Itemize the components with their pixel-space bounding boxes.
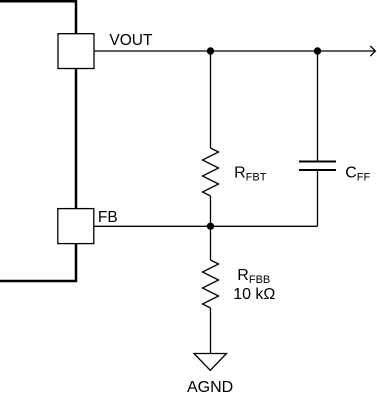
resistor RFBT xyxy=(203,148,219,196)
pin box VOUT xyxy=(58,34,94,69)
node dot VOUT/RFBT xyxy=(207,47,214,54)
wire FB horizontal xyxy=(94,225,318,227)
node dot VOUT/CFF xyxy=(314,47,321,54)
arrowhead VOUT output xyxy=(370,46,375,56)
pin box FB xyxy=(58,209,94,244)
wire FB to RFBB xyxy=(210,226,212,260)
ground symbol AGND xyxy=(194,354,227,371)
svg-text:FB: FB xyxy=(98,209,118,226)
node dot FB xyxy=(207,223,214,230)
device outline top segment xyxy=(0,1,76,34)
wire VOUT horizontal xyxy=(94,50,375,52)
svg-text:VOUT: VOUT xyxy=(109,32,153,49)
resistor RFBB xyxy=(203,260,219,308)
svg-text:10 kΩ: 10 kΩ xyxy=(233,286,275,303)
device outline middle segment xyxy=(75,68,78,209)
wire CFF top xyxy=(317,51,319,162)
wire RFBB to ground xyxy=(210,308,212,354)
capacitor CFF xyxy=(299,162,336,171)
wire VOUT to RFBT xyxy=(210,51,212,148)
wire RFBT to FB node xyxy=(210,196,212,226)
wire CFF bottom xyxy=(317,170,319,226)
device outline bottom segment xyxy=(0,244,76,282)
svg-text:AGND: AGND xyxy=(187,379,233,396)
